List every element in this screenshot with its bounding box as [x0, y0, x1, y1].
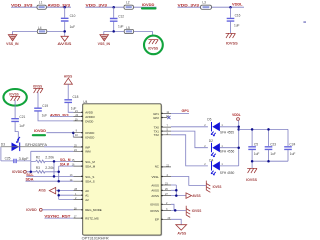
- junction cap C23 top: [267, 128, 270, 131]
- junction cap C23 bottom: [267, 160, 270, 163]
- wire A0 A1 A2 bus: [56, 191, 74, 200]
- svg-text:C21: C21: [19, 115, 25, 119]
- net label VDDL top: [232, 2, 243, 6]
- svg-text:L2: L2: [126, 1, 130, 5]
- svg-text:C12: C12: [118, 14, 124, 18]
- ground IOVSS above C19: [33, 84, 43, 93]
- svg-text:REG_MODE: REG_MODE: [85, 208, 102, 212]
- wire RSTZ_MS row: [44, 217, 73, 219]
- svg-text:SCL_M: SCL_M: [85, 160, 95, 164]
- svg-text:VDD_3V3: VDD_3V3: [11, 4, 33, 8]
- svg-text:1uF: 1uF: [118, 25, 124, 29]
- net label VSYNC_RST: [44, 215, 71, 219]
- net label SDA_M: [60, 163, 69, 167]
- power port VDDL: [232, 113, 241, 121]
- ground AVSS address pins: [39, 187, 56, 193]
- wire SDA_M row: [59, 166, 74, 181]
- svg-text:R3: R3: [36, 166, 40, 170]
- svg-text:AVSS: AVSS: [151, 189, 159, 193]
- capacitor C10 1uF: [61, 14, 76, 29]
- junction IOVDD pullup branch: [30, 171, 33, 174]
- svg-text:EP: EP: [155, 218, 159, 222]
- svg-text:A2: A2: [85, 198, 89, 202]
- ground VSS_IN block1: [6, 35, 19, 47]
- ground AVSS EP: [176, 225, 187, 236]
- wire IOVDD to pins 9 10: [46, 133, 74, 137]
- capacitor C12 1uF: [110, 7, 124, 31]
- ground IOVSS block3: [226, 33, 239, 45]
- wire SCL_S row: [26, 175, 73, 177]
- svg-text:IOVSS: IOVSS: [148, 47, 159, 51]
- junction IOVDD pins: [72, 132, 75, 135]
- green highlight bar under IOVDD top: [141, 7, 157, 9]
- svg-text:VSS_IN: VSS_IN: [98, 42, 111, 46]
- junction AVSS right a: [175, 189, 178, 192]
- inductor L5: [124, 26, 133, 34]
- net label VDD_3V3 block2: [86, 4, 108, 8]
- svg-text:VDD_3V3: VDD_3V3: [86, 4, 108, 8]
- svg-text:AVSS: AVSS: [57, 42, 72, 46]
- svg-text:C19: C19: [42, 104, 48, 108]
- capacitor C19 1uF: [34, 104, 48, 118]
- net label IOVDD mid: [34, 129, 46, 133]
- svg-text:SDA_S: SDA_S: [85, 180, 95, 184]
- ground IOVSS in circle: [148, 40, 159, 51]
- junction block2 top: [112, 6, 115, 9]
- svg-text:AVSS: AVSS: [151, 183, 159, 187]
- stray wire dot top right: [303, 21, 306, 23]
- junction AVSS right b: [175, 194, 178, 197]
- capacitor C25 3.6pF: [5, 156, 29, 163]
- capacitor C23 1uF: [265, 142, 277, 155]
- capacitor C21 1uF: [11, 115, 25, 128]
- svg-text:IOVSS: IOVSS: [213, 185, 222, 189]
- capacitor C16 1uF: [227, 7, 241, 33]
- svg-text:D2: D2: [209, 139, 213, 143]
- junction A1: [57, 194, 60, 197]
- inductor L3: [201, 1, 212, 10]
- net label VDD_3V3: [11, 4, 33, 8]
- wire cap bottom rail: [252, 150, 288, 169]
- svg-text:IOVSS: IOVSS: [9, 92, 19, 96]
- junction cap C5 top: [251, 128, 254, 131]
- svg-text:AVSS: AVSS: [192, 194, 201, 198]
- svg-text:SFH 4556: SFH 4556: [220, 149, 235, 153]
- junction cap C5 bottom: [251, 160, 254, 163]
- wire VSSL to IOVSS: [171, 177, 206, 186]
- power symbol AVSS right: [186, 193, 201, 198]
- pin names right: [150, 112, 159, 222]
- svg-text:SCL_M: SCL_M: [60, 158, 71, 162]
- wire block1 top VDD_3V3 to AVDD_3V3: [11, 6, 71, 8]
- svg-text:1uF: 1uF: [234, 24, 240, 28]
- ground AVSS block1: [57, 36, 72, 46]
- green ellipse annotation around IOVSS mid-left: [3, 89, 26, 106]
- wire C18 to AVDD pin 21: [68, 103, 73, 112]
- wire D5 to VDDL rail: [220, 126, 239, 128]
- capacitor C18 1uF: [64, 95, 78, 111]
- wire IOVSS to C21: [14, 100, 16, 118]
- svg-text:GP2: GP2: [153, 116, 159, 120]
- wire D2 to VDDL rail: [220, 147, 239, 149]
- net label AVDD_3V3 mid: [50, 113, 69, 117]
- svg-text:AVDD3: AVDD3: [85, 115, 95, 119]
- ground IOVSS mid-left: [9, 92, 20, 100]
- svg-text:D5: D5: [207, 117, 211, 121]
- svg-text:1uF: 1uF: [270, 152, 276, 156]
- inductor L1: [37, 1, 46, 10]
- svg-text:IOVDD: IOVDD: [34, 129, 46, 133]
- svg-text:L4: L4: [38, 26, 42, 30]
- wire AVSS pins bus right: [171, 185, 186, 196]
- ground IOVSS sideways VSSL: [206, 181, 222, 193]
- IC U4 OPT3101 box: [82, 100, 163, 240]
- wire C19 to DVDD pin 19: [38, 111, 73, 121]
- svg-text:IOVDD: IOVDD: [12, 170, 23, 174]
- LED D4 SFH 4550: [204, 158, 234, 175]
- junction SCL_S: [53, 175, 56, 178]
- ground VSS_IN block2: [98, 35, 111, 47]
- junction SDA_M branch: [57, 171, 60, 174]
- svg-text:NC: NC: [155, 165, 159, 169]
- svg-text:C10: C10: [70, 14, 76, 18]
- LED D5 SFH 4555: [204, 117, 234, 135]
- wire IOVSS to C19: [37, 92, 39, 107]
- junction A0: [57, 189, 60, 192]
- svg-text:1uF: 1uF: [290, 152, 296, 156]
- junction block3 VDDL: [229, 6, 232, 9]
- wire TX2 to D4: [171, 135, 208, 166]
- wire block1 lower: [13, 31, 65, 34]
- svg-text:C24: C24: [289, 142, 295, 146]
- wire D4 to VDDL rail: [220, 165, 239, 167]
- wire VDDL rail: [237, 120, 239, 165]
- junction block2 lower: [112, 30, 115, 33]
- svg-text:IOVDD: IOVDD: [142, 3, 155, 7]
- svg-text:DVDD: DVDD: [85, 119, 93, 123]
- svg-text:L1: L1: [39, 1, 43, 5]
- svg-text:IOVSS: IOVSS: [246, 178, 258, 182]
- svg-text:C5: C5: [254, 142, 258, 146]
- svg-text:AVSS: AVSS: [177, 231, 187, 235]
- inductor L4: [37, 26, 47, 34]
- power port IOVDD REG_MODE: [26, 208, 42, 212]
- wire AVSS to C18: [67, 84, 69, 99]
- svg-text:IOVSS: IOVSS: [33, 84, 43, 88]
- svg-text:SDA: SDA: [26, 178, 34, 182]
- svg-text:SCL: SCL: [26, 173, 34, 177]
- net label GP1: [182, 109, 190, 113]
- wire C25 left loop: [1, 147, 31, 161]
- wire EP to AVSS: [171, 219, 181, 224]
- wire SCL vertical: [53, 161, 55, 176]
- inductor L2: [124, 1, 133, 10]
- capacitor C5 1uF: [248, 142, 259, 155]
- svg-text:RSTZ_MS: RSTZ_MS: [85, 217, 99, 221]
- svg-text:VDDL: VDDL: [232, 2, 243, 6]
- net label SCL_M: [60, 158, 71, 162]
- ground IOVSS cap bank: [246, 168, 258, 182]
- resistor R2 2.20k: [36, 155, 55, 162]
- pin names left: [85, 111, 102, 221]
- svg-text:L3: L3: [202, 1, 206, 5]
- svg-text:OPT3101RHFR: OPT3101RHFR: [82, 236, 110, 240]
- wire GP1 to label: [171, 112, 189, 114]
- svg-text:VDDL: VDDL: [232, 113, 241, 117]
- svg-text:SFH 4555: SFH 4555: [220, 131, 234, 135]
- wire TX0 to D5: [171, 126, 208, 128]
- svg-text:1uF: 1uF: [19, 124, 25, 128]
- junction block1 top: [63, 6, 66, 9]
- wire R3 row: [27, 161, 59, 171]
- svg-text:SFH203PFA: SFH203PFA: [25, 143, 48, 147]
- svg-text:3.6pF: 3.6pF: [19, 157, 29, 161]
- svg-text:AVSS: AVSS: [39, 189, 47, 193]
- svg-text:GP1: GP1: [182, 109, 190, 113]
- net label SDA: [26, 178, 34, 182]
- junction IOVSS right: [174, 209, 177, 212]
- junction rail cap bus: [237, 128, 240, 131]
- svg-text:C23: C23: [270, 142, 276, 146]
- power port IOVDD pullups: [12, 170, 26, 174]
- wire C21 to photodiode node: [15, 122, 18, 143]
- pin ticks at IC box edge: [81, 112, 163, 219]
- wire REG_MODE row: [42, 209, 73, 211]
- net label AVDD_3V3: [48, 4, 71, 8]
- green circle annotation around IOVSS: [144, 36, 163, 55]
- svg-text:A0: A0: [85, 189, 89, 193]
- svg-text:1uF: 1uF: [254, 152, 260, 156]
- junction SCL top: [53, 160, 56, 163]
- wire AVDD_3V3 to pin 20: [50, 115, 73, 117]
- svg-text:IOVDD: IOVDD: [85, 131, 94, 135]
- svg-text:AVDD_3V3: AVDD_3V3: [48, 4, 71, 8]
- no-connect X GP2: [167, 116, 170, 119]
- net label SCL: [26, 173, 34, 177]
- junction rail D2: [237, 146, 240, 149]
- svg-text:VSS_IN: VSS_IN: [6, 42, 19, 46]
- wire IOVSS pins right: [171, 204, 186, 210]
- svg-text:2.20k: 2.20k: [45, 155, 54, 159]
- svg-text:D3: D3: [1, 143, 5, 147]
- svg-text:TX2: TX2: [154, 133, 160, 137]
- svg-text:2.20k: 2.20k: [45, 166, 54, 170]
- pin numbers left: [70, 110, 79, 219]
- svg-text:AVSS: AVSS: [151, 194, 159, 198]
- photodiode D3 SFH203PFA: [1, 137, 48, 151]
- junction SDA_S: [57, 180, 60, 183]
- green highlight bar under IOVDD mid: [32, 134, 46, 136]
- wire INP row: [1, 146, 74, 148]
- resistor R3 2.20k: [36, 166, 55, 173]
- svg-text:C25: C25: [5, 156, 11, 160]
- wire cap top rail: [239, 129, 288, 146]
- svg-text:C16: C16: [235, 14, 241, 18]
- pin numbers right: [165, 111, 171, 220]
- svg-text:VDD_3V3: VDD_3V3: [178, 4, 200, 8]
- wire block2 top: [86, 6, 157, 8]
- svg-text:C18: C18: [73, 95, 79, 99]
- capacitor C24 1uF: [284, 142, 295, 155]
- svg-text:R2: R2: [36, 155, 40, 159]
- svg-text:IOVSS: IOVSS: [226, 42, 239, 46]
- svg-text:SDA_M: SDA_M: [85, 165, 96, 169]
- svg-text:SCL_S: SCL_S: [85, 175, 94, 179]
- wire SDA_S row: [26, 180, 74, 182]
- svg-text:1uF: 1uF: [70, 25, 76, 29]
- svg-text:VSSL: VSSL: [151, 175, 159, 179]
- junction block1 lower: [63, 30, 66, 33]
- pin stubs right: [161, 113, 171, 219]
- net label VDD_3V3 block3: [178, 4, 200, 8]
- svg-text:IOVDD: IOVDD: [26, 208, 37, 212]
- wire block2 lower: [104, 31, 153, 36]
- wire R2 row SCL_M: [31, 160, 74, 162]
- ground IOVSS sideways lower: [186, 206, 202, 218]
- wire TX1 to D2: [171, 131, 208, 148]
- svg-text:U4: U4: [83, 100, 87, 104]
- svg-text:L5: L5: [126, 26, 130, 30]
- svg-text:IOVDD: IOVDD: [85, 136, 94, 140]
- ground AVSS above C18: [64, 75, 73, 85]
- svg-text:1uF: 1uF: [42, 114, 48, 118]
- LED D2 SFH 4556: [204, 139, 234, 157]
- svg-text:SFH 4550: SFH 4550: [220, 171, 235, 175]
- wire block3 top: [178, 6, 245, 8]
- junction rail D5: [237, 126, 240, 129]
- svg-text:IOVSS: IOVSS: [150, 209, 159, 213]
- wire C10 stems: [64, 7, 66, 36]
- net label IOVDD top: [142, 3, 155, 7]
- svg-text:IOVSS: IOVSS: [150, 203, 159, 207]
- pin stubs left: [73, 112, 82, 218]
- svg-text:SDA_M: SDA_M: [60, 163, 69, 167]
- wire INM row: [31, 151, 74, 161]
- svg-text:IOVSS: IOVSS: [192, 209, 202, 213]
- svg-text:INM: INM: [85, 150, 91, 154]
